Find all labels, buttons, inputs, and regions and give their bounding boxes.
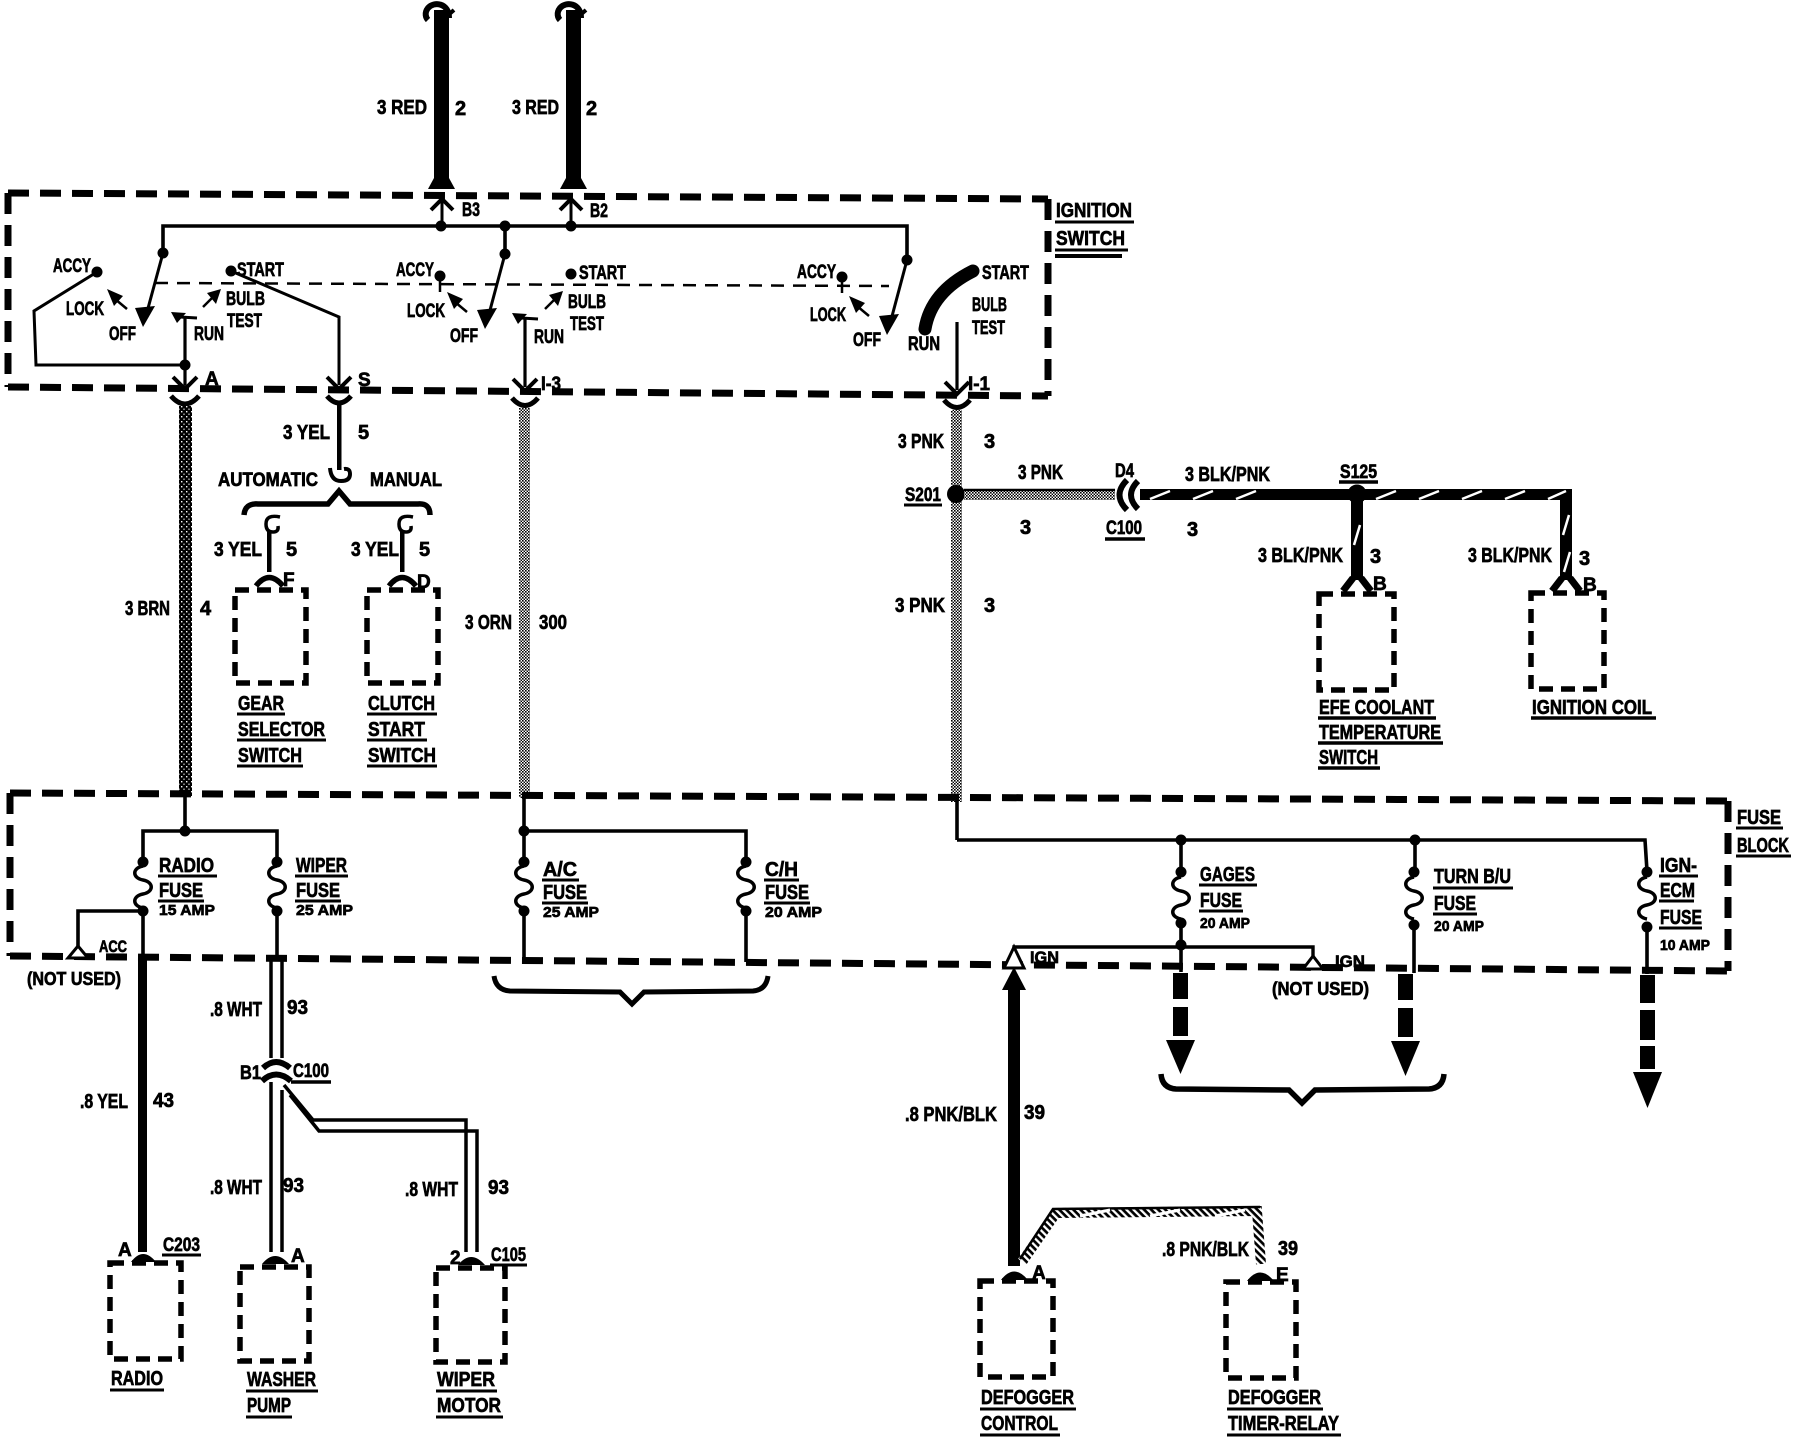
label RADIO <box>110 1368 164 1390</box>
wire 3 YEL (S down) <box>337 405 342 470</box>
hook top of gear selector branch <box>266 516 280 532</box>
svg-text:BULB: BULB <box>568 292 606 313</box>
svg-text:FUSE: FUSE <box>159 880 203 902</box>
EFE coolant temperature switch box <box>1319 594 1394 690</box>
svg-text:TURN B/U: TURN B/U <box>1434 866 1511 888</box>
heavy dashed arrow below turn b/u fuse <box>1391 974 1420 1076</box>
svg-text:TEST: TEST <box>570 314 604 335</box>
washer pump box <box>240 1267 309 1361</box>
svg-text:A: A <box>205 369 219 390</box>
connector D4 C100 <box>1105 461 1145 539</box>
label 3 BRN 4 <box>125 598 212 620</box>
svg-text:20 AMP: 20 AMP <box>765 904 822 921</box>
svg-text:WIPER: WIPER <box>296 855 347 877</box>
svg-text:START: START <box>368 719 425 741</box>
wire 3 BRN entry to radio/wiper bus <box>143 796 277 862</box>
svg-text:93: 93 <box>488 1177 509 1199</box>
svg-text:5: 5 <box>286 539 297 561</box>
label WIPER MOTOR <box>436 1369 503 1417</box>
svg-text:SWITCH: SWITCH <box>1056 228 1125 250</box>
svg-text:3 RED: 3 RED <box>512 97 559 119</box>
svg-text:B1: B1 <box>240 1063 261 1084</box>
svg-text:SWITCH: SWITCH <box>1319 747 1378 769</box>
svg-text:.8 PNK/BLK: .8 PNK/BLK <box>1162 1239 1249 1261</box>
svg-text:93: 93 <box>287 997 308 1019</box>
connector cup pin A at washer pump <box>262 1246 305 1267</box>
svg-text:3 ORN: 3 ORN <box>465 612 512 634</box>
label RADIO FUSE 15 AMP <box>158 855 217 919</box>
svg-text:GEAR: GEAR <box>238 693 284 715</box>
label 3 YEL 5 <box>283 422 369 444</box>
svg-text:3 YEL: 3 YEL <box>214 539 262 561</box>
svg-text:3 BLK/PNK: 3 BLK/PNK <box>1258 545 1343 567</box>
C/H fuse <box>738 857 755 963</box>
svg-text:A/C: A/C <box>543 859 577 881</box>
label 3 RED 2 (right wire) <box>512 97 597 120</box>
contact ACCY cluster 1 <box>53 256 103 278</box>
contact ACCY cluster 3 <box>797 262 848 293</box>
svg-text:S: S <box>358 370 371 391</box>
svg-text:3 BLK/PNK: 3 BLK/PNK <box>1468 545 1552 567</box>
svg-text:20 AMP: 20 AMP <box>1434 918 1484 935</box>
wire radio fuse to border <box>141 911 145 958</box>
radio fuse <box>135 857 152 917</box>
svg-text:RUN: RUN <box>908 334 940 355</box>
pin I-3 output arrow <box>513 374 561 395</box>
label 3 YEL 5 (gear branch) <box>214 539 297 561</box>
wire arm to I-1 output cluster 3 <box>955 322 958 390</box>
label BULB TEST cluster 3 <box>972 295 1007 339</box>
splice S201 <box>904 485 965 506</box>
contact BULB TEST cluster 1 <box>203 289 265 332</box>
svg-text:4: 4 <box>200 598 212 620</box>
wiper fuse <box>269 857 286 959</box>
label DEFOGGER TIMER-RELAY <box>1227 1387 1341 1435</box>
label 3 PNK 3 (lower) <box>895 595 995 617</box>
svg-text:3: 3 <box>1187 519 1198 541</box>
wire ACC branch (not used) <box>78 911 143 947</box>
svg-text:AUTOMATIC: AUTOMATIC <box>218 470 318 491</box>
defogger control box <box>980 1281 1053 1377</box>
brace under A/C and C/H fuses <box>494 976 768 1004</box>
label .8 WHT 93 (wiper motor) <box>405 1177 509 1201</box>
svg-text:43: 43 <box>153 1090 174 1112</box>
heavy dashed arrow below ign-ecm fuse <box>1633 975 1662 1108</box>
connector B1 C100 <box>240 1061 331 1084</box>
connector cup pin A C203 at radio <box>118 1235 201 1262</box>
label GAGES FUSE 20 AMP <box>1199 864 1257 932</box>
svg-text:RUN: RUN <box>534 327 564 348</box>
svg-text:S125: S125 <box>1340 462 1377 483</box>
wire internal feed bus <box>163 226 907 260</box>
label 3 PNK (horizontal) with gauge 3 <box>1018 462 1063 539</box>
turn b/u fuse <box>1406 867 1423 974</box>
switch cluster 1 lever <box>135 253 163 327</box>
hook top of clutch start branch <box>399 516 413 532</box>
svg-text:CONTROL: CONTROL <box>981 1413 1058 1435</box>
svg-text:C100: C100 <box>293 1061 329 1082</box>
label 3 PNK 3 (upper) <box>898 431 995 453</box>
svg-text:(NOT USED): (NOT USED) <box>27 969 121 989</box>
wire ACCY bypass loop cluster 1 <box>34 272 185 365</box>
heavy dashed arrow below gages fuse <box>1166 973 1195 1074</box>
junction dots on feed bus <box>436 221 577 232</box>
connector cup below A <box>171 396 199 404</box>
wire .8 WHT double-line to washer pump <box>271 1082 282 1252</box>
svg-text:CLUTCH: CLUTCH <box>368 693 435 715</box>
label FUSE BLOCK <box>1736 807 1791 857</box>
wire START to S output cluster 1 <box>231 271 339 385</box>
svg-text:3 PNK: 3 PNK <box>1018 462 1063 484</box>
svg-text:TEST: TEST <box>972 318 1005 339</box>
svg-text:FUSE: FUSE <box>296 880 340 902</box>
svg-text:3 PNK: 3 PNK <box>895 595 945 617</box>
defogger timer-relay box <box>1226 1282 1296 1378</box>
clutch start switch box <box>367 590 438 683</box>
svg-text:RADIO: RADIO <box>111 1368 163 1390</box>
svg-text:.8 WHT: .8 WHT <box>405 1179 458 1201</box>
svg-text:3 BLK/PNK: 3 BLK/PNK <box>1185 464 1270 486</box>
svg-text:RUN: RUN <box>194 324 224 345</box>
connector cup pin D <box>389 572 431 593</box>
label A/C FUSE 25 AMP <box>542 859 599 921</box>
svg-text:LOCK: LOCK <box>66 299 104 320</box>
svg-text:39: 39 <box>1024 1102 1045 1124</box>
svg-text:LOCK: LOCK <box>810 305 846 326</box>
switch cluster 2 pivot dot <box>500 249 511 260</box>
A/C fuse <box>516 857 533 961</box>
label 3 RED 2 (left wire) <box>377 97 466 120</box>
contact LOCK cluster 3 <box>810 296 869 326</box>
IGN terminal triangle (used, left) <box>1004 947 1059 968</box>
svg-text:BULB: BULB <box>972 295 1007 316</box>
svg-text:TEST: TEST <box>227 311 262 332</box>
label EFE COOLANT TEMPERATURE SWITCH <box>1318 697 1443 769</box>
svg-text:15 AMP: 15 AMP <box>159 902 215 919</box>
label 3 BLK/PNK (C100 to S125) with gauge 3 <box>1185 464 1270 541</box>
svg-text:TEMPERATURE: TEMPERATURE <box>1319 722 1441 744</box>
svg-text:OFF: OFF <box>853 330 881 351</box>
connector cup below I-1 <box>944 400 970 408</box>
svg-text:SELECTOR: SELECTOR <box>238 719 325 741</box>
svg-text:SWITCH: SWITCH <box>368 745 436 767</box>
connector cup below S <box>327 396 351 403</box>
svg-text:I-3: I-3 <box>541 374 561 395</box>
ignition coil box <box>1531 593 1604 689</box>
wire IGN branch line <box>1014 940 1313 957</box>
contact START cluster 1 <box>226 260 285 281</box>
switch cluster 1 pivot dot <box>158 248 169 259</box>
svg-text:5: 5 <box>358 422 369 444</box>
svg-text:300: 300 <box>539 612 567 634</box>
svg-text:A: A <box>291 1246 305 1267</box>
svg-text:C/H: C/H <box>765 859 798 881</box>
svg-text:3: 3 <box>1020 517 1031 539</box>
wire .8 PNK/BLK heavy to defogger control <box>1008 988 1020 1266</box>
svg-text:IGNITION COIL: IGNITION COIL <box>1532 697 1652 719</box>
label TURN B/U FUSE 20 AMP <box>1433 866 1513 935</box>
svg-text:D4: D4 <box>1115 461 1134 482</box>
svg-text:RADIO: RADIO <box>159 855 214 877</box>
svg-text:3: 3 <box>1579 548 1590 570</box>
svg-text:25 AMP: 25 AMP <box>543 904 599 921</box>
switch arm arc in START position cluster 3 <box>925 271 973 329</box>
svg-text:2: 2 <box>455 98 466 120</box>
svg-text:FUSE: FUSE <box>765 882 809 904</box>
svg-text:ACC: ACC <box>99 937 127 956</box>
svg-text:FUSE: FUSE <box>1660 907 1702 929</box>
svg-text:TIMER-RELAY: TIMER-RELAY <box>1228 1413 1340 1435</box>
svg-text:(NOT USED): (NOT USED) <box>1272 979 1369 999</box>
label IGNITION SWITCH <box>1055 200 1134 256</box>
wire RUN to A output cluster 1 <box>180 318 191 385</box>
wire 3 RED feed 1 (battery feed to B3) <box>426 4 455 189</box>
wire 3 PNK horizontal S201 to C100 <box>964 490 1115 500</box>
svg-text:MANUAL: MANUAL <box>370 470 442 491</box>
pin B2 arrow <box>560 199 608 225</box>
label 3 BLK/PNK 3 pin B (EFE drop) <box>1258 545 1387 595</box>
wire 3 BLK/PNK drop to ignition coil <box>1552 500 1580 591</box>
pin S output arrow <box>327 370 371 391</box>
contact START cluster 2 <box>566 263 627 284</box>
svg-text:MOTOR: MOTOR <box>437 1395 501 1417</box>
label .8 WHT 93 (washer) <box>210 1175 304 1199</box>
switch cluster 2 lever <box>477 254 505 329</box>
dashed accessory rail line <box>155 283 889 286</box>
svg-text:IGN: IGN <box>1030 948 1059 967</box>
wire 3 ORN (I-3 to fuse block) <box>519 408 530 798</box>
brace automatic/manual split <box>244 491 430 515</box>
svg-text:93: 93 <box>283 1175 304 1197</box>
svg-text:10 AMP: 10 AMP <box>1660 937 1710 954</box>
svg-text:3 RED: 3 RED <box>377 97 427 119</box>
svg-text:.8 YEL: .8 YEL <box>80 1091 128 1113</box>
pin A output arrow <box>173 369 219 390</box>
fuse block dashed box <box>10 793 1728 971</box>
label CLUTCH START SWITCH <box>367 693 437 767</box>
wire 3 BLK/PNK horizontal C100 to S125 to ignition coil corner <box>1140 489 1572 500</box>
contact BULB TEST cluster 2 <box>545 291 606 335</box>
label GEAR SELECTOR SWITCH <box>237 693 326 767</box>
wire 3 BLK/PNK drop to EFE switch <box>1343 500 1371 591</box>
svg-text:A: A <box>118 1240 132 1261</box>
label 3 ORN 300 <box>465 612 567 634</box>
label .8 PNK/BLK 39 (upper) <box>905 1102 1045 1126</box>
svg-text:IGN: IGN <box>1335 952 1365 971</box>
svg-text:FUSE: FUSE <box>1200 890 1242 912</box>
svg-text:WIPER: WIPER <box>437 1369 495 1391</box>
svg-text:FUSE: FUSE <box>543 882 587 904</box>
svg-text:C100: C100 <box>1106 518 1142 539</box>
label .8 PNK/BLK 39 (timer-relay) <box>1162 1238 1298 1261</box>
wire 3 PNK entry to gages/turn/ign-ecm bus <box>957 800 1647 872</box>
svg-text:LOCK: LOCK <box>407 301 445 322</box>
svg-text:BLOCK: BLOCK <box>1737 835 1789 857</box>
svg-text:3 YEL: 3 YEL <box>351 539 399 561</box>
pin B3 arrow <box>431 199 480 225</box>
svg-text:3: 3 <box>984 431 995 453</box>
svg-text:3: 3 <box>984 595 995 617</box>
label .8 YEL 43 <box>80 1090 174 1113</box>
svg-text:2: 2 <box>586 98 597 120</box>
svg-text:25 AMP: 25 AMP <box>296 902 353 919</box>
contact LOCK cluster 1 <box>66 289 127 320</box>
svg-text:EFE COOLANT: EFE COOLANT <box>1319 697 1434 719</box>
wire .8 WHT double-line wiper fuse to C100 <box>271 958 282 1058</box>
svg-text:START: START <box>982 263 1029 284</box>
wiper motor box <box>436 1268 505 1362</box>
svg-text:DEFOGGER: DEFOGGER <box>1228 1387 1321 1409</box>
connector cup pin A at defogger control <box>1001 1263 1046 1284</box>
ACC terminal triangle <box>68 937 127 958</box>
svg-text:C203: C203 <box>163 1235 200 1256</box>
wire 3 PNK (I-1 to fuse block) <box>951 410 962 802</box>
splice S125 <box>1339 462 1378 504</box>
svg-text:39: 39 <box>1278 1238 1298 1260</box>
svg-text:OFF: OFF <box>109 324 136 345</box>
svg-text:WASHER: WASHER <box>247 1369 316 1391</box>
switch cluster 3 pivot dot <box>902 255 913 266</box>
gear selector switch box <box>235 590 306 683</box>
connector cup pin E at defogger timer-relay <box>1247 1265 1289 1286</box>
brace under gages/turn arrows <box>1161 1074 1444 1103</box>
svg-text:C105: C105 <box>491 1245 526 1266</box>
svg-text:ACCY: ACCY <box>797 262 836 283</box>
label WASHER PUMP <box>246 1369 318 1417</box>
svg-text:ACCY: ACCY <box>53 256 91 277</box>
wire 3 BRN (A to fuse block) <box>179 406 192 796</box>
svg-text:SWITCH: SWITCH <box>238 745 302 767</box>
svg-text:DEFOGGER: DEFOGGER <box>981 1387 1074 1409</box>
svg-text:ECM: ECM <box>1660 880 1695 902</box>
label IGNITION COIL <box>1531 697 1656 719</box>
connector cup below I-3 <box>512 398 538 406</box>
label .8 WHT 93 (upper) <box>210 997 308 1021</box>
radio box <box>110 1263 181 1359</box>
svg-text:I-1: I-1 <box>968 374 990 395</box>
svg-text:.8 WHT: .8 WHT <box>210 1177 262 1199</box>
label C/H FUSE 20 AMP <box>764 859 822 921</box>
svg-text:FUSE: FUSE <box>1737 807 1781 829</box>
wire .8 YEL heavy (radio feed) <box>138 958 147 1252</box>
svg-text:B2: B2 <box>590 201 608 222</box>
svg-text:3: 3 <box>1370 546 1381 568</box>
svg-text:.8 PNK/BLK: .8 PNK/BLK <box>905 1104 997 1126</box>
label 3 YEL 5 (clutch branch) <box>351 539 430 561</box>
ign-ecm fuse <box>1639 867 1656 975</box>
svg-text:BULB: BULB <box>226 289 265 310</box>
svg-text:OFF: OFF <box>450 326 478 347</box>
gages fuse <box>1173 867 1190 973</box>
svg-text:5: 5 <box>419 539 430 561</box>
svg-text:IGN-: IGN- <box>1660 855 1697 877</box>
svg-text:FUSE: FUSE <box>1434 893 1476 915</box>
svg-text:3 BRN: 3 BRN <box>125 598 170 620</box>
svg-text:20 AMP: 20 AMP <box>1200 915 1250 932</box>
svg-text:GAGES: GAGES <box>1200 864 1255 886</box>
svg-text:3 YEL: 3 YEL <box>283 422 330 444</box>
svg-text:PUMP: PUMP <box>247 1395 291 1417</box>
label 3 BLK/PNK 3 pin B (coil drop) <box>1468 545 1597 596</box>
connector cup pin 2 C105 at wiper motor <box>450 1245 527 1269</box>
svg-text:B3: B3 <box>462 200 480 221</box>
wire RUN to I-3 output cluster 2 <box>523 319 526 387</box>
wire 3 ORN entry to A/C-C/H bus <box>519 798 747 862</box>
label IGN-ECM FUSE 10 AMP <box>1659 855 1710 954</box>
contact RUN cluster 2 <box>512 313 564 348</box>
svg-text:S201: S201 <box>905 485 941 506</box>
ignition switch dashed box <box>8 193 1048 396</box>
IGN terminal triangle (not used, right) <box>1272 952 1369 999</box>
wire 3 YEL gear selector branch <box>267 530 272 572</box>
contact RUN cluster 1 <box>171 312 224 345</box>
svg-text:IGNITION: IGNITION <box>1056 200 1132 222</box>
wire .8 PNK/BLK braided branch to defogger timer-relay <box>1020 1207 1261 1264</box>
label DEFOGGER CONTROL <box>980 1387 1076 1435</box>
wire 3 YEL clutch start branch <box>400 530 405 572</box>
label WIPER FUSE 25 AMP <box>295 855 353 919</box>
heavy up arrowhead on .8 PNK/BLK at IGN <box>1002 967 1026 990</box>
wire .8 WHT double-line branch to wiper motor <box>284 1085 477 1252</box>
wire 3 RED feed 2 (battery feed to B2) <box>558 4 587 189</box>
svg-text:.8 WHT: .8 WHT <box>210 999 262 1021</box>
connector hook at bottom of 3 YEL <box>330 468 350 481</box>
switch cluster 3 lever <box>879 260 907 335</box>
pin I-1 output arrow <box>945 374 990 395</box>
svg-text:ACCY: ACCY <box>396 260 434 281</box>
svg-text:3 PNK: 3 PNK <box>898 431 944 453</box>
svg-text:START: START <box>579 263 626 284</box>
connector cup pin F <box>256 570 295 591</box>
contact LOCK cluster 2 <box>407 292 467 322</box>
contact ACCY cluster 2 <box>396 260 446 292</box>
